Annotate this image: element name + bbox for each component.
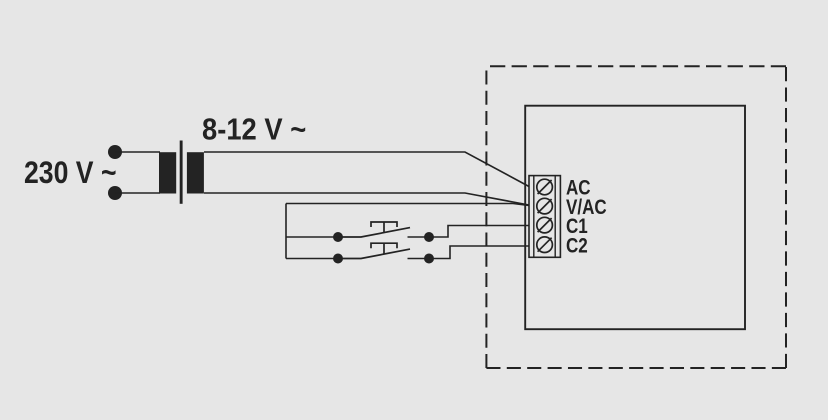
- label V/AC: [566, 196, 607, 219]
- label 8-12 V ~: [202, 113, 306, 147]
- wire: secondary bottom to terminal V/AC: [204, 193, 529, 205]
- wire: S2 to terminal C2: [429, 246, 529, 259]
- enclosure boundary (dashed) bottom edge: [486, 367, 786, 369]
- wire: switch loop left vertical: [285, 204, 287, 259]
- wire: 230V top to transformer primary: [115, 151, 160, 153]
- switch S1 push-button actuator: [371, 222, 397, 233]
- terminal screw C1: [537, 217, 553, 233]
- enclosure boundary (dashed) right edge: [785, 67, 787, 368]
- switch S1 blade (open): [338, 228, 410, 237]
- svg-text:8-12 V ~: 8-12 V ~: [202, 113, 306, 147]
- wire: row1 from vertical to switch S1: [286, 236, 338, 238]
- node dot: S2 moving contact: [333, 254, 343, 264]
- label AC: [566, 177, 591, 200]
- wire: secondary top to terminal AC: [204, 152, 529, 187]
- label C1: [566, 215, 588, 238]
- device box U1: [525, 106, 745, 330]
- transformer T1 core screen line: [180, 141, 183, 204]
- node dot: 230V bottom terminal: [108, 186, 122, 200]
- wire: row2 from vertical to switch S2: [286, 258, 338, 260]
- label 230 V ~: [24, 156, 116, 191]
- transformer T1 secondary winding: [187, 152, 204, 193]
- terminal block body: [529, 176, 560, 258]
- svg-text:230 V ~: 230 V ~: [24, 156, 116, 191]
- enclosure boundary (dashed) left edge: [485, 71, 487, 369]
- switch S2 push-button actuator: [371, 243, 397, 254]
- terminal screw C2: [537, 237, 553, 253]
- switch S2 blade (open): [338, 249, 410, 258]
- wire: 230V bottom to transformer primary: [115, 192, 160, 194]
- transformer T1 primary winding: [159, 152, 176, 193]
- node dot: S2 fixed contact: [424, 254, 434, 264]
- node dot: S1 fixed contact: [424, 232, 434, 242]
- wire: S1 to terminal C1: [429, 226, 529, 238]
- wire: S1 fixed contact stub: [408, 236, 430, 238]
- node dot: 230V top terminal: [108, 145, 122, 159]
- wire: button common (top of switch loop) to V/AC: [286, 204, 529, 206]
- node dot: S1 moving contact: [333, 232, 343, 242]
- enclosure boundary (dashed) top edge: [490, 65, 786, 67]
- wire: S2 fixed contact stub: [408, 258, 430, 260]
- terminal screw AC: [537, 179, 553, 195]
- label C2: [566, 235, 588, 258]
- terminal screw V/AC: [537, 198, 553, 214]
- svg-text:C2: C2: [566, 235, 588, 258]
